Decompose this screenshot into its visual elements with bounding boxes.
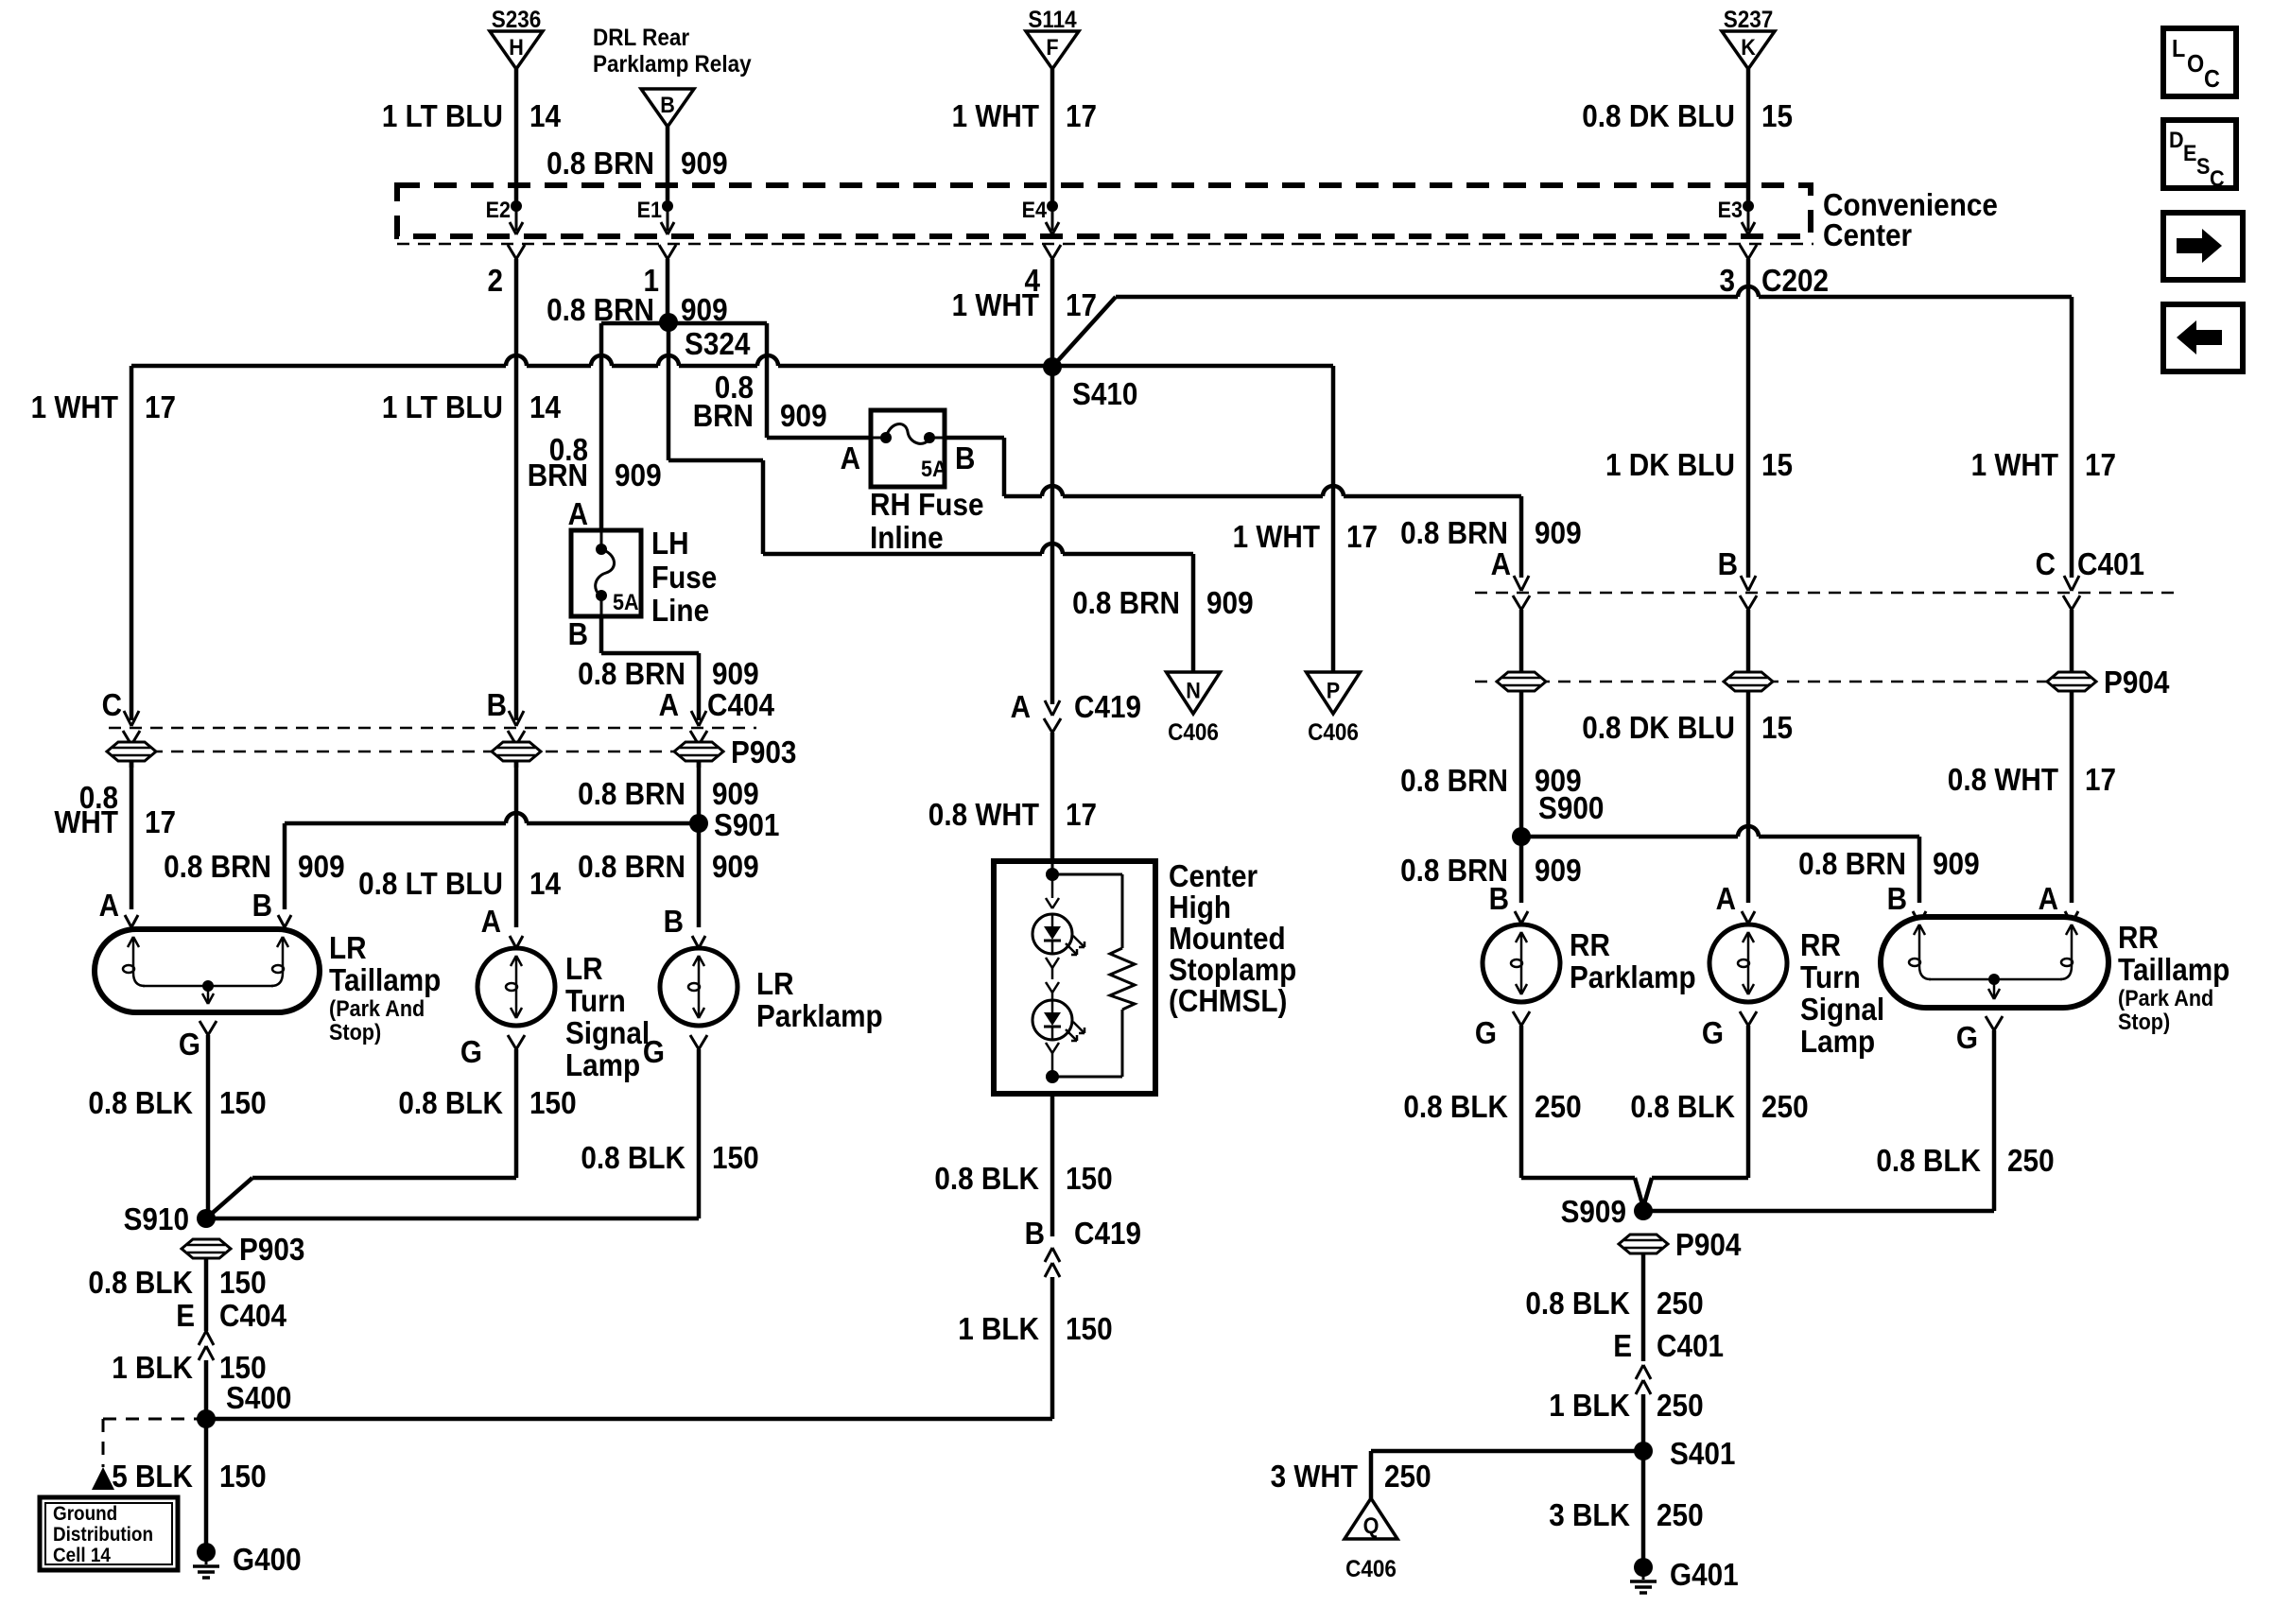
- label 0.8 BRN 909 (below S900): [1400, 853, 1582, 888]
- svg-text:909: 909: [681, 146, 728, 181]
- svg-text:S114: S114: [1028, 7, 1076, 33]
- svg-text:Center: Center: [1823, 217, 1912, 252]
- svg-text:17: 17: [1346, 519, 1378, 554]
- svg-text:909: 909: [1933, 846, 1980, 881]
- svg-text:Ground: Ground: [53, 1503, 117, 1525]
- splice S901: [689, 807, 779, 842]
- splice S401: [1634, 1436, 1735, 1471]
- C202 pin 4: [1025, 245, 1062, 367]
- svg-text:0.8 BRN: 0.8 BRN: [578, 849, 685, 884]
- svg-text:G: G: [1702, 1015, 1724, 1050]
- svg-text:S324: S324: [685, 326, 751, 361]
- svg-text:1 WHT: 1 WHT: [952, 287, 1039, 322]
- pin B (LH fuse): [568, 616, 588, 651]
- svg-text:1 WHT: 1 WHT: [1971, 447, 2058, 482]
- svg-text:E: E: [1613, 1328, 1632, 1363]
- wire RR turn gnd to S909: [1643, 1178, 1748, 1207]
- C401 pin C: [2036, 546, 2144, 673]
- grommet P904 (ground): [1619, 1227, 1742, 1262]
- connector triangle N: [1167, 672, 1221, 746]
- C404 pin A: [659, 687, 775, 768]
- label 3 WHT 250: [1271, 1459, 1431, 1494]
- svg-text:G: G: [460, 1034, 482, 1069]
- svg-text:S910: S910: [124, 1201, 189, 1236]
- svg-text:S401: S401: [1670, 1436, 1735, 1471]
- wire RH fuse B: [945, 438, 1004, 496]
- label 0.8 WHT 17 (RR tail A): [1948, 762, 2116, 797]
- svg-text:14: 14: [529, 866, 562, 901]
- svg-text:B: B: [955, 441, 975, 475]
- pin G (LR taillamp): [179, 1021, 217, 1218]
- label 1 BLK 150 (below C419): [958, 1311, 1112, 1346]
- svg-text:(Park And: (Park And: [2118, 986, 2213, 1011]
- label 0.8 BLK 250 (RR turn gnd): [1630, 1089, 1808, 1124]
- svg-text:909: 909: [298, 849, 345, 884]
- pin A (RH fuse): [841, 441, 860, 475]
- svg-text:0.8 BRN: 0.8 BRN: [578, 776, 685, 811]
- C401 pin A: [1491, 496, 1530, 673]
- svg-text:E: E: [176, 1298, 195, 1333]
- svg-text:0.8 BLK: 0.8 BLK: [398, 1085, 503, 1120]
- label 909 (above S900): [1400, 763, 1582, 798]
- svg-text:5A: 5A: [921, 457, 947, 482]
- label 0.8 DK BLU 15 (above E3): [1582, 98, 1793, 133]
- svg-text:S900: S900: [1538, 790, 1604, 825]
- wire RR tail gnd to S909: [1643, 1209, 1994, 1214]
- pin G (RR turn signal): [1702, 1011, 1757, 1178]
- dashed wire to Ground Distribution: [92, 1419, 206, 1490]
- svg-text:1 BLK: 1 BLK: [1549, 1388, 1630, 1423]
- label 0.8 BLK 250 (below S909): [1525, 1286, 1703, 1321]
- ground G400: [193, 1542, 302, 1578]
- grommet P904 left: [1497, 672, 1546, 691]
- wire LR turn gnd to S910: [206, 1178, 516, 1218]
- svg-text:C404: C404: [219, 1298, 287, 1333]
- svg-text:Signal: Signal: [565, 1015, 650, 1050]
- svg-text:250: 250: [2007, 1143, 2055, 1178]
- wire LT BLU to LR turn: [514, 761, 519, 927]
- wire CHMSL ground: [1050, 1094, 1055, 1236]
- node E1: [637, 198, 674, 234]
- label 1 WHT 17 (P branch): [1233, 519, 1378, 554]
- svg-text:B: B: [1718, 546, 1738, 581]
- label 0.8 BRN 909 (RH fuse feed): [693, 370, 827, 433]
- svg-text:P903: P903: [731, 734, 796, 769]
- wire 3 WHT to S401: [1371, 1451, 1643, 1498]
- wire WHT to C401-C (y314): [1116, 286, 2072, 297]
- svg-text:C: C: [102, 687, 122, 722]
- svg-text:0.8 BRN: 0.8 BRN: [578, 656, 685, 691]
- grommet P903 mid: [492, 742, 541, 761]
- svg-text:A: A: [481, 904, 501, 939]
- svg-text:909: 909: [615, 458, 662, 492]
- wire LH fuse B to C404-A: [601, 616, 699, 720]
- svg-text:DRL Rear: DRL Rear: [593, 25, 689, 51]
- wire WHT left column: [130, 366, 134, 720]
- wire S401 to G401: [1641, 1451, 1646, 1559]
- svg-text:C: C: [2210, 166, 2225, 192]
- svg-text:LH: LH: [651, 526, 689, 561]
- svg-text:E2: E2: [486, 198, 511, 223]
- wire down to C401-C: [2070, 297, 2074, 578]
- svg-text:Line: Line: [651, 593, 709, 628]
- node E2: [486, 198, 523, 234]
- svg-text:C202: C202: [1761, 263, 1829, 298]
- wire LR taillamp A: [130, 761, 134, 909]
- C202 pin 1: [644, 245, 677, 322]
- svg-text:B: B: [487, 687, 507, 722]
- main bus wire 909/B+ (y387): [131, 355, 1333, 366]
- diagonal from S410: [1052, 297, 1116, 367]
- svg-text:15: 15: [1761, 98, 1793, 133]
- svg-text:250: 250: [1384, 1459, 1431, 1494]
- svg-text:High: High: [1169, 890, 1231, 924]
- label 0.8 BRN 909 (above E1): [547, 146, 728, 181]
- svg-text:250: 250: [1657, 1388, 1704, 1423]
- pin G (LR parklamp): [643, 1034, 707, 1218]
- svg-text:0.8 BLK: 0.8 BLK: [934, 1161, 1039, 1196]
- grommet P904 right: [2047, 665, 2170, 700]
- svg-text:C: C: [2036, 546, 2056, 581]
- svg-text:S909: S909: [1561, 1194, 1626, 1229]
- svg-text:S400: S400: [226, 1380, 291, 1415]
- connector C419 pin A: [1011, 689, 1141, 861]
- connector C404 pin E: [176, 1298, 286, 1419]
- svg-text:909: 909: [1535, 853, 1582, 888]
- svg-text:150: 150: [529, 1085, 577, 1120]
- svg-text:17: 17: [145, 389, 176, 424]
- svg-text:15: 15: [1761, 447, 1793, 482]
- svg-text:S901: S901: [714, 807, 779, 842]
- svg-text:E3: E3: [1718, 198, 1743, 223]
- connector triangle K (S237 feed): [1722, 7, 1775, 210]
- svg-text:B: B: [660, 93, 675, 118]
- svg-text:Turn: Turn: [1800, 959, 1861, 994]
- svg-text:C401: C401: [2077, 546, 2144, 581]
- wire down to triangle P: [1331, 366, 1336, 672]
- svg-text:1 WHT: 1 WHT: [952, 98, 1039, 133]
- svg-text:G401: G401: [1670, 1557, 1739, 1592]
- connector C404 dashed line: [109, 727, 756, 730]
- svg-text:A: A: [99, 888, 119, 923]
- svg-text:1 BLK: 1 BLK: [958, 1311, 1039, 1346]
- svg-text:0.8 BRN: 0.8 BRN: [1072, 585, 1180, 620]
- svg-text:B: B: [568, 616, 588, 651]
- splice S324: [601, 313, 767, 530]
- label 0.8 BLK 150 (LR tail gnd): [88, 1085, 266, 1120]
- connector triangle H (splice S236 feed): [490, 7, 543, 210]
- svg-text:250: 250: [1535, 1089, 1582, 1124]
- wire BRN P904 to S900: [1519, 691, 1524, 903]
- svg-text:0.8 BLK: 0.8 BLK: [1630, 1089, 1735, 1124]
- svg-text:909: 909: [1206, 585, 1254, 620]
- svg-text:1 WHT: 1 WHT: [1233, 519, 1320, 554]
- svg-text:C401: C401: [1657, 1328, 1724, 1363]
- label 0.8 BRN 909 (below S901): [578, 849, 759, 884]
- svg-text:H: H: [509, 35, 524, 60]
- svg-text:K: K: [1741, 35, 1756, 60]
- svg-text:Cell 14: Cell 14: [53, 1545, 111, 1566]
- label 1 LT BLU 14 (mid): [382, 389, 562, 424]
- svg-text:C419: C419: [1074, 689, 1141, 724]
- label 0.8 BRN 909 (RR tail B): [1798, 846, 1980, 881]
- svg-text:909: 909: [712, 776, 759, 811]
- svg-text:150: 150: [219, 1085, 267, 1120]
- label 0.8 BRN 909 (N branch): [1072, 585, 1254, 620]
- svg-text:N: N: [1186, 678, 1201, 703]
- svg-text:3 BLK: 3 BLK: [1549, 1497, 1630, 1532]
- svg-text:0.8 BLK: 0.8 BLK: [88, 1265, 193, 1300]
- RR Turn Signal Lamp bulb: [1709, 924, 1884, 1059]
- svg-text:RR: RR: [1570, 927, 1610, 962]
- svg-text:0.8 BLK: 0.8 BLK: [88, 1085, 193, 1120]
- label 5 BLK 150: [112, 1459, 266, 1494]
- svg-text:L: L: [2172, 34, 2185, 62]
- svg-text:0.8 BLK: 0.8 BLK: [1876, 1143, 1981, 1178]
- svg-text:P904: P904: [2104, 665, 2170, 700]
- svg-text:A: A: [568, 496, 588, 531]
- svg-text:5 BLK: 5 BLK: [112, 1459, 193, 1494]
- C404 pin C: [102, 687, 140, 768]
- label 0.8 BLK 150 (LR park gnd): [581, 1140, 758, 1175]
- svg-text:S410: S410: [1072, 376, 1137, 411]
- label 1 BLK 150 (below C404-E): [112, 1350, 266, 1385]
- wire S910 to C404-E: [204, 1257, 209, 1331]
- label 0.8 BRN 909 (above S901): [578, 776, 759, 811]
- wire S400 to CHMSL ground: [206, 1417, 1052, 1422]
- svg-text:C406: C406: [1168, 719, 1219, 746]
- svg-text:0.8 BRN: 0.8 BRN: [1798, 846, 1906, 881]
- svg-text:C404: C404: [707, 687, 775, 722]
- svg-text:909: 909: [712, 656, 759, 691]
- svg-text:Fuse: Fuse: [651, 560, 717, 595]
- forward arrow button: [2163, 213, 2243, 280]
- wire RR park gnd to S909: [1521, 1178, 1643, 1207]
- LR Turn Signal Lamp bulb: [477, 948, 650, 1082]
- svg-text:Signal: Signal: [1800, 992, 1884, 1027]
- label 0.8 LT BLU 14: [358, 866, 561, 901]
- svg-text:B: B: [1887, 881, 1907, 916]
- svg-text:15: 15: [1761, 710, 1793, 745]
- svg-text:0.8 BRN: 0.8 BRN: [1400, 515, 1508, 550]
- svg-text:909: 909: [712, 849, 759, 884]
- svg-text:250: 250: [1657, 1286, 1704, 1321]
- connector triangle B (DRL Rear Parklamp Relay): [593, 25, 752, 210]
- svg-text:Stop): Stop): [329, 1020, 381, 1045]
- label 0.8 BRN 909 (LH fuse feed): [528, 432, 662, 492]
- wire down to C401-A: [0, 0, 1, 1]
- label 1 LT BLU 14: [382, 98, 562, 133]
- svg-text:Taillamp: Taillamp: [2118, 952, 2230, 987]
- wire DK BLU P904 to RR turn: [1746, 691, 1751, 903]
- svg-text:5A: 5A: [613, 590, 639, 615]
- svg-text:B: B: [1489, 881, 1509, 916]
- connector triangle F (S114 feed): [1026, 7, 1079, 210]
- svg-text:C419: C419: [1074, 1216, 1141, 1251]
- connector row P904 dashed line: [1475, 681, 2091, 683]
- LR Parklamp bulb: [660, 948, 883, 1033]
- label 0.8 BLK 150 (below S910): [88, 1265, 266, 1300]
- label 0.8 BRN 909 (C401-A feed): [1400, 515, 1582, 550]
- label 0.8 BLK 250 (RR tail gnd): [1876, 1143, 2054, 1178]
- wire down to triangle N: [1191, 554, 1196, 672]
- label 1 DK BLU 15: [1605, 447, 1793, 482]
- pin A (RR turn signal): [1716, 881, 1755, 924]
- svg-text:Turn: Turn: [565, 983, 626, 1018]
- C401 pin B: [1718, 546, 1757, 673]
- svg-text:B: B: [664, 904, 684, 939]
- label 1 WHT 17 (left column): [31, 389, 176, 424]
- svg-text:150: 150: [219, 1459, 267, 1494]
- svg-text:S237: S237: [1724, 7, 1774, 33]
- svg-text:14: 14: [529, 98, 562, 133]
- svg-text:Taillamp: Taillamp: [329, 962, 441, 997]
- svg-text:250: 250: [1761, 1089, 1809, 1124]
- pin G (RR parklamp): [1475, 1011, 1530, 1178]
- RR Parklamp bulb: [1483, 924, 1696, 1002]
- grommet P904 mid: [1724, 672, 1773, 691]
- C202 pin 2: [488, 245, 526, 720]
- svg-text:G: G: [1956, 1020, 1978, 1055]
- label 0.8 BRN 909 (below C202 pin 1): [547, 292, 728, 327]
- label 0.8 WHT 17 (LR tail A): [54, 780, 176, 839]
- wire BRN to triangle N (y586): [763, 544, 1193, 554]
- label 0.8 BLK 150 (CHMSL gnd): [934, 1161, 1112, 1196]
- pin G (RR taillamp): [1956, 1016, 2003, 1211]
- label 1 WHT 17 (right): [1971, 447, 2116, 482]
- svg-text:S: S: [2196, 154, 2210, 180]
- svg-text:A: A: [1491, 546, 1511, 581]
- pin A (LH fuse): [568, 496, 588, 531]
- svg-text:A: A: [1716, 881, 1736, 916]
- svg-text:G: G: [179, 1027, 200, 1062]
- svg-text:14: 14: [529, 389, 562, 424]
- svg-text:17: 17: [1066, 287, 1097, 322]
- svg-text:250: 250: [1657, 1497, 1704, 1532]
- svg-text:RH Fuse: RH Fuse: [870, 487, 984, 522]
- svg-text:P903: P903: [239, 1232, 304, 1267]
- svg-text:C406: C406: [1308, 719, 1359, 746]
- svg-text:0.8 BRN: 0.8 BRN: [547, 146, 654, 181]
- svg-text:0.8 WHT: 0.8 WHT: [1948, 762, 2058, 797]
- C404 pin B: [487, 687, 525, 768]
- label 0.8 WHT 17 (CHMSL feed): [928, 797, 1097, 832]
- svg-text:150: 150: [712, 1140, 759, 1175]
- svg-text:A: A: [2039, 881, 2058, 916]
- svg-text:2: 2: [488, 263, 504, 298]
- svg-text:Parklamp: Parklamp: [756, 998, 883, 1033]
- pin A (LR turn signal): [481, 904, 523, 948]
- connector row C202 dashed line: [397, 243, 1813, 246]
- svg-text:Lamp: Lamp: [1800, 1024, 1875, 1059]
- splice S909: [1561, 1194, 1653, 1229]
- svg-text:0.8 BLK: 0.8 BLK: [1403, 1089, 1508, 1124]
- svg-text:150: 150: [219, 1265, 267, 1300]
- svg-text:A: A: [659, 687, 679, 722]
- svg-text:G400: G400: [233, 1542, 302, 1577]
- pin G (LR turn signal): [460, 1034, 525, 1178]
- svg-text:17: 17: [1066, 797, 1097, 832]
- svg-text:D: D: [2169, 128, 2184, 153]
- wire BRN S324 branch down: [668, 322, 763, 554]
- label 0.8 BLK 250 (RR park gnd): [1403, 1089, 1581, 1124]
- svg-text:O: O: [2187, 49, 2204, 78]
- svg-text:150: 150: [1066, 1311, 1113, 1346]
- svg-text:909: 909: [780, 398, 827, 433]
- svg-text:3: 3: [1720, 263, 1736, 298]
- wire S400 to G400: [204, 1419, 209, 1544]
- svg-text:P: P: [1327, 678, 1340, 703]
- svg-text:Stop): Stop): [2118, 1010, 2170, 1035]
- svg-text:1 LT BLU: 1 LT BLU: [382, 389, 503, 424]
- svg-text:1 LT BLU: 1 LT BLU: [382, 98, 503, 133]
- svg-text:909: 909: [1535, 515, 1582, 550]
- svg-text:0.8 BLK: 0.8 BLK: [581, 1140, 685, 1175]
- wire BRN to C401-A (y525): [1004, 486, 1521, 496]
- svg-text:1 WHT: 1 WHT: [31, 389, 118, 424]
- pin B (LR taillamp): [252, 888, 291, 927]
- wire S324 to RH fuse A: [767, 436, 871, 441]
- svg-text:0.8 LT BLU: 0.8 LT BLU: [358, 866, 503, 901]
- node E4: [1022, 198, 1059, 234]
- LOC button: [2163, 28, 2236, 96]
- label 0.8 BLK 150 (LR turn gnd): [398, 1085, 576, 1120]
- svg-text:BRN: BRN: [528, 458, 588, 492]
- svg-text:LR: LR: [329, 930, 367, 965]
- C202 pin 3: [1720, 245, 1830, 578]
- splice S910: [124, 1201, 216, 1236]
- svg-text:A: A: [1011, 689, 1031, 724]
- label 0.8 BRN 909 (below LH fuse): [578, 656, 759, 691]
- pin B (RH fuse): [955, 441, 975, 475]
- svg-text:1 BLK: 1 BLK: [112, 1350, 193, 1385]
- connector row P903 dashed line: [109, 751, 719, 753]
- pin A (RR taillamp): [2039, 881, 2078, 924]
- connector triangle P: [1307, 672, 1361, 746]
- pin A (LR taillamp): [99, 888, 138, 927]
- svg-text:B: B: [1025, 1216, 1045, 1251]
- wire S410 down to C419-A: [1050, 367, 1055, 704]
- svg-text:Lamp: Lamp: [565, 1047, 640, 1082]
- connector C401 pin E: [1613, 1328, 1724, 1451]
- svg-text:Parklamp: Parklamp: [1570, 959, 1696, 994]
- svg-text:Q: Q: [1363, 1513, 1379, 1539]
- Ground Distribution Cell 14 box: [40, 1497, 178, 1570]
- svg-text:LR: LR: [756, 966, 794, 1001]
- svg-text:0.8 BRN: 0.8 BRN: [164, 849, 271, 884]
- splice S410: [1043, 357, 1137, 411]
- back arrow button: [2163, 304, 2243, 371]
- svg-text:3 WHT: 3 WHT: [1271, 1459, 1358, 1494]
- svg-text:(Park And: (Park And: [329, 996, 425, 1022]
- wire S900 to RR tail B: [1521, 826, 1919, 903]
- svg-text:17: 17: [1066, 98, 1097, 133]
- svg-text:WHT: WHT: [54, 804, 118, 839]
- RH Fuse Inline: [870, 410, 984, 555]
- svg-text:Stoplamp: Stoplamp: [1169, 952, 1296, 987]
- RR Taillamp (Park And Stop): [1881, 917, 2230, 1035]
- svg-text:G: G: [643, 1034, 665, 1069]
- wire BRN P903 to S901: [697, 761, 702, 927]
- label 1 WHT 17 (below C202 pin 4): [952, 287, 1097, 322]
- svg-text:S236: S236: [492, 7, 542, 33]
- wire S909 to C401-E: [1641, 1253, 1646, 1361]
- svg-text:17: 17: [2085, 762, 2116, 797]
- svg-text:C406: C406: [1345, 1556, 1397, 1582]
- label 0.8 DK BLU 15 (below P904): [1582, 710, 1793, 745]
- DESC button: [2163, 120, 2236, 192]
- grommet P903 right: [674, 734, 796, 769]
